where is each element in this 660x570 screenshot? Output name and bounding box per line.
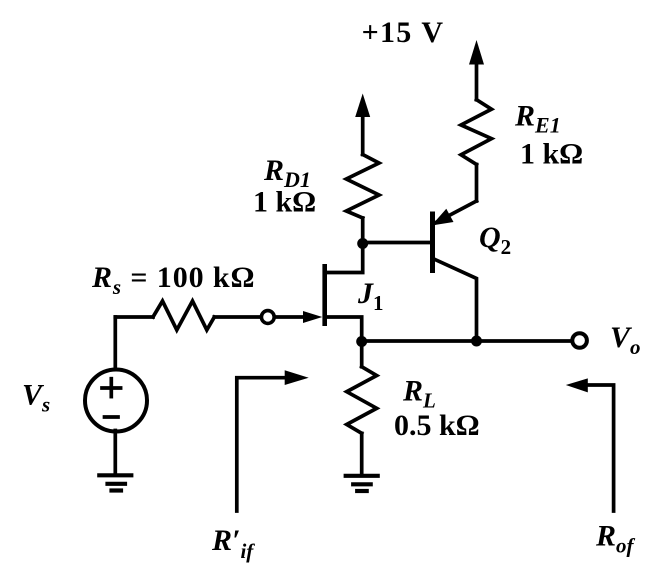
label R'if — [211, 524, 255, 563]
wire RE1 bottom lead — [475, 165, 479, 202]
node collector junction — [471, 336, 482, 347]
label Vo — [610, 321, 641, 359]
+15 V supply label — [362, 16, 445, 49]
ground below RL — [346, 476, 378, 491]
output terminal node — [572, 333, 587, 348]
wire RL top lead — [360, 342, 364, 367]
svg-text:+15 V: +15 V — [362, 16, 445, 49]
node source junction — [356, 336, 367, 347]
svg-text:Vs: Vs — [22, 379, 50, 417]
label RD1 value — [253, 154, 316, 219]
svg-text:Q2: Q2 — [479, 221, 511, 259]
wire Vs bottom lead — [113, 431, 117, 474]
svg-text:RL: RL — [402, 375, 436, 413]
source Vs — [85, 370, 147, 432]
svg-text:1 kΩ: 1 kΩ — [253, 186, 316, 219]
arrow to +15V (RD1 branch) — [355, 94, 370, 118]
svg-text:RE1: RE1 — [514, 100, 561, 138]
arrow to +15V (RE1 branch) — [469, 40, 484, 65]
wire RD1 bottom lead — [361, 218, 365, 244]
arrow R'if measurement — [237, 370, 309, 511]
label Rof — [595, 520, 636, 558]
svg-text:J1: J1 — [357, 277, 384, 315]
wire from Vs up to Rs — [115, 315, 153, 319]
svg-text:Rs = 100 kΩ: Rs = 100 kΩ — [91, 261, 255, 299]
svg-text:1 kΩ: 1 kΩ — [520, 138, 583, 171]
ground below Vs — [99, 475, 131, 490]
wire output line — [362, 339, 571, 343]
arrow Rof measurement — [566, 378, 614, 511]
svg-text:R′if: R′if — [211, 524, 255, 563]
wire base lead — [363, 241, 430, 245]
node drain junction — [357, 238, 368, 249]
resistor RD1 — [346, 155, 379, 219]
wire R_E1 top lead to +15V arrow — [475, 62, 479, 100]
resistor Rs — [153, 301, 214, 330]
label J1 — [357, 277, 384, 315]
wire RL bottom lead — [360, 433, 364, 473]
label Q2 — [479, 221, 511, 259]
resistor RL — [347, 367, 377, 434]
label RL value — [394, 375, 480, 443]
svg-text:0.5 kΩ: 0.5 kΩ — [394, 409, 480, 442]
label RE1 value — [514, 100, 583, 171]
input terminal node — [261, 311, 274, 324]
label Vs — [22, 379, 50, 417]
svg-text:Rof: Rof — [595, 520, 636, 558]
transistor Q2 — [430, 201, 477, 341]
wire gate lead with arrow into J1 — [276, 315, 309, 319]
svg-text:Vo: Vo — [610, 321, 641, 359]
wire R_D1 top lead to +15V arrow — [361, 116, 365, 155]
JFET J1 — [322, 249, 362, 342]
wire Rs to input node — [214, 315, 260, 319]
label Rs = 100 kOhm — [91, 261, 255, 299]
wire Vs top lead — [113, 317, 117, 370]
resistor RE1 — [461, 100, 492, 165]
